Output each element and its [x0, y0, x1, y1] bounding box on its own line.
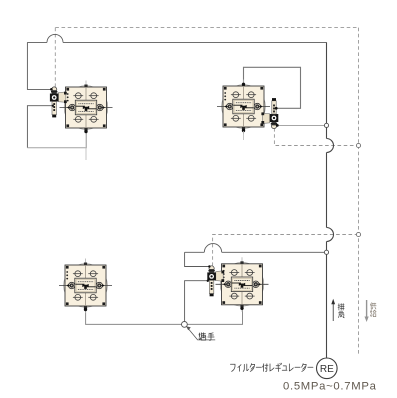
label フィルター付レギュレーター (drawn) — [230, 363, 313, 371]
connection dot — [208, 265, 210, 267]
node on dashed bus upper — [356, 143, 360, 147]
label 継手 (drawn) — [199, 333, 214, 341]
dashed line from unit D controller — [213, 235, 359, 267]
label 供給 (drawn, vertical, gray) — [370, 303, 376, 317]
svg-text:0.5MPa~0.7MPa: 0.5MPa~0.7MPa — [283, 380, 377, 392]
svg-text:RE: RE — [320, 364, 334, 375]
speed controller of unit D — [207, 266, 224, 297]
wire: to unit A bottom port (light) — [27, 131, 86, 147]
dashed bus right vertical — [358, 28, 360, 355]
jump arc over dashed line upper — [327, 139, 334, 153]
wire: unit B controller to supply bus node — [277, 124, 327, 126]
connection dot — [207, 280, 209, 282]
wire: supply bus node to unit D controller — [185, 251, 327, 253]
wire: supply bus top — [27, 41, 326, 43]
label 排気 (drawn, vertical) — [338, 304, 344, 318]
wire: unit A controller out, down left side — [27, 106, 52, 148]
dashed bus top — [55, 27, 358, 29]
jump arc over dashed line lower — [327, 228, 334, 242]
connection dot — [50, 88, 53, 91]
wire: unit D controller out down to joint — [185, 281, 208, 322]
node on supply bus upper — [324, 123, 328, 127]
wire: into unit D controller top — [185, 252, 210, 266]
wire: bottom pipe between unit C and unit D — [86, 308, 243, 324]
centerline extension below unit B — [243, 131, 245, 140]
speed controller of unit A — [50, 87, 67, 118]
joint circle (tsugite) — [182, 322, 188, 328]
dashed drop to unit A speed controller — [54, 28, 56, 88]
jump arc over dashed line — [204, 244, 221, 253]
node on supply bus lower — [324, 250, 328, 254]
wire: unit B top loop — [244, 67, 301, 108]
top port dot unit B — [242, 83, 245, 86]
connection dot — [275, 107, 278, 110]
wire: supply bus right vertical — [326, 42, 328, 357]
centerline extension below unit A — [85, 135, 87, 161]
connection dot — [52, 105, 54, 107]
dashed line from unit B controller — [274, 128, 358, 146]
speed controller of unit B (rotated) — [261, 98, 278, 129]
wire: left drop to unit A controller — [27, 42, 51, 89]
node on dashed bus lower — [356, 232, 360, 236]
jump arc over dashed drop — [47, 34, 63, 42]
connection dot — [276, 124, 279, 127]
